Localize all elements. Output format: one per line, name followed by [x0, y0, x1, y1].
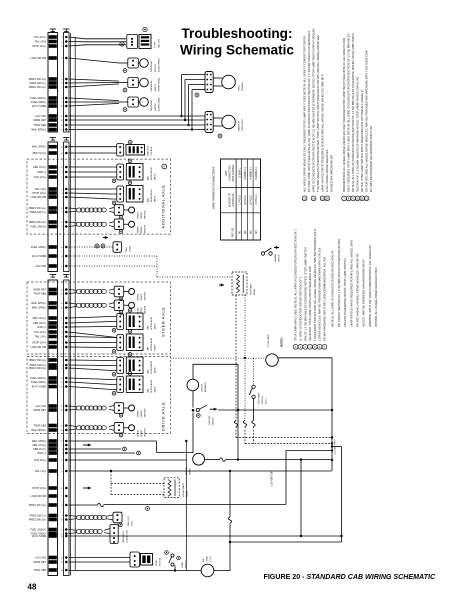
- wheel sensor drive R labels: [138, 428, 147, 437]
- svg-text:PRES SW 1(-): PRES SW 1(-): [29, 81, 46, 85]
- svg-text:VALVE: VALVE: [154, 367, 157, 374]
- svg-text:ALL WHEEL DRIVE VEHICLES ONLY.: ALL WHEEL DRIVE VEHICLES ONLY. REQUIRES …: [303, 35, 307, 192]
- svg-text:ABS VLV(-): ABS VLV(-): [33, 447, 46, 451]
- fuel sender wires to sensor: [213, 78, 222, 86]
- svg-text:17: 17: [60, 441, 62, 443]
- key switch screw: [196, 414, 200, 418]
- ignition frame top: [193, 363, 238, 365]
- stop lamp relay labels: [250, 283, 257, 295]
- wheel sensor steer R sensor: [129, 302, 135, 308]
- svg-text:TAIL LP(-): TAIL LP(-): [35, 469, 47, 473]
- pressure switch 3 link: [138, 101, 139, 103]
- wheel sensor add-axle R sensor: [129, 221, 135, 227]
- dashed feed to ether relay 2: [111, 494, 164, 496]
- svg-text:LOW AIR SW: LOW AIR SW: [30, 494, 46, 498]
- junction dot (245,358): [244, 357, 246, 359]
- ignition frame left lower: [192, 413, 194, 454]
- twisted pair wires wheel sensor drive L: [69, 405, 114, 410]
- svg-text:16: 16: [60, 430, 62, 432]
- svg-text:SNSR RET: SNSR RET: [33, 118, 47, 122]
- ABS valve add-axle 2 valve block: [126, 186, 143, 203]
- svg-text:ABS: ABS: [147, 388, 150, 393]
- svg-text:1: 1: [62, 445, 63, 447]
- svg-text:NOTES:: NOTES:: [280, 337, 284, 347]
- svg-text:STOP LP(+): STOP LP(+): [32, 341, 46, 345]
- svg-text:SECTION OF 1.5 SQ MM UNLESS OT: SECTION OF 1.5 SQ MM UNLESS OTHERWISE NO…: [356, 77, 360, 192]
- svg-text:ARDWIRE INPUT OR J1939 COMMUNI: ARDWIRE INPUT OR J1939 COMMUNICATION. AL…: [368, 245, 372, 327]
- riser x=245: [244, 295, 246, 358]
- wire row 505 left: [69, 504, 98, 506]
- air horn labels: [202, 556, 212, 562]
- svg-text:SENSOR: SENSOR: [145, 291, 147, 300]
- svg-text:+12V IGNITION: +12V IGNITION: [272, 470, 274, 487]
- svg-text:MODULATOR: MODULATOR: [150, 316, 153, 329]
- screw above fuse block: [128, 140, 132, 144]
- svg-text:FIGURE 20 - STANDARD CAB WIRIN: FIGURE 20 - STANDARD CAB WIRING SCHEMATI…: [264, 573, 436, 581]
- svg-text:FUEL SNSR: FUEL SNSR: [242, 119, 244, 131]
- svg-text:VALVE: VALVE: [154, 344, 157, 351]
- trunk corner to vertical B: [332, 447, 343, 543]
- svg-text:ED FOR ATC AND ALL-WHEEL DRIVE: ED FOR ATC AND ALL-WHEEL DRIVE VEHICLES.…: [365, 50, 369, 192]
- fuse in trunk x=232.8: [228, 517, 231, 523]
- svg-text:FUEL SND(+): FUEL SND(+): [30, 225, 46, 229]
- svg-text:9: 9: [62, 515, 63, 517]
- fuse in riser x=236: [234, 421, 237, 427]
- connector (stop/tail lamps) body: [127, 35, 138, 49]
- fuel sender connector pins: [206, 74, 211, 91]
- stop lamp switch labels: [258, 392, 268, 404]
- wire ignition to trunk: [218, 409, 332, 411]
- ignition frame left mid: [192, 391, 194, 408]
- svg-text:4-380813-1: 4-380813-1: [250, 166, 253, 179]
- ABS valve steer 2 screw bottom-left: [112, 350, 116, 354]
- twisted pair data link 1: [69, 515, 113, 520]
- dotted wire row 266: [69, 265, 157, 267]
- right trunk vertical x=332: [331, 358, 333, 471]
- svg-text:PRES SW 1(+): PRES SW 1(+): [29, 77, 47, 81]
- svg-text:ETHER START: ETHER START: [182, 483, 185, 497]
- wire fuse to trunk: [226, 459, 333, 461]
- water-in-fuel sensor labels: [238, 119, 245, 131]
- svg-text:CONNECTOR: CONNECTOR: [127, 530, 129, 543]
- wires to ABS valve drive 2: [69, 378, 117, 390]
- connector (stop/tail lamps) pins: [131, 38, 133, 46]
- terminal strip segment 2 (wide): [48, 142, 58, 272]
- ABS valve add-axle 1 screw top: [128, 159, 132, 163]
- svg-text:ABS VLV(-): ABS VLV(-): [33, 165, 46, 169]
- svg-text:HORN: HORN: [207, 556, 209, 562]
- wheel sensor steer R labels: [138, 305, 147, 314]
- svg-text:RELAY: RELAY: [253, 288, 256, 295]
- svg-text:HORN: HORN: [156, 560, 158, 566]
- svg-text:OR ATC AND ALL-WHEEL DRIVE VEH: OR ATC AND ALL-WHEEL DRIVE VEHICLES. MAY…: [356, 253, 360, 327]
- svg-text:8: 8: [62, 365, 63, 367]
- wire oil lamp to fuse: [205, 459, 220, 461]
- stop lamp relay coil: [237, 275, 240, 293]
- svg-text:Wiring Schematic: Wiring Schematic: [180, 43, 294, 58]
- wheel sensor steer L link: [124, 291, 129, 293]
- svg-text:VALVE: VALVE: [154, 323, 157, 330]
- ignition frame right vertical: [237, 364, 239, 460]
- pressure switch 3 labels: [151, 97, 161, 111]
- terminal strip wire bands: [49, 35, 57, 572]
- wheel sensor add-axle L connector: [114, 205, 124, 216]
- svg-text:REF. NO.: REF. NO.: [232, 227, 235, 237]
- wire row 460 left: [69, 459, 186, 461]
- svg-text:TAIL LP(-): TAIL LP(-): [35, 187, 47, 191]
- svg-text:PRES SW 2(+): PRES SW 2(+): [29, 518, 47, 522]
- dashed drop from row 471: [110, 471, 112, 495]
- low air pressure switch screw: [123, 69, 127, 73]
- svg-text:AIR: AIR: [202, 558, 205, 562]
- fuse below stop switch: [252, 421, 255, 427]
- svg-text:MODULATOR: MODULATOR: [150, 379, 153, 392]
- svg-text:CONN: CONN: [130, 246, 132, 252]
- twisted pair wires wheel sensor drive R: [69, 425, 114, 430]
- svg-text:SWITCH: SWITCH: [155, 83, 157, 91]
- svg-text:7: 7: [62, 496, 63, 498]
- wheel sensor drive L link: [124, 407, 129, 409]
- wheel sensor drive R sensor: [129, 425, 135, 431]
- svg-text:WHL SPD(-): WHL SPD(-): [32, 145, 46, 149]
- svg-text:J1939: J1939: [132, 520, 134, 526]
- svg-text:9: 9: [62, 102, 63, 104]
- ABS valve steer 1 connector pins: [119, 316, 121, 328]
- wire row 536: [69, 535, 342, 537]
- svg-text:SENSOR: SENSOR: [145, 408, 147, 417]
- wheel sensor add-axle L sensor: [129, 207, 135, 213]
- wire rows 37-46 to stop/tail connector: [69, 37, 126, 46]
- extra wire row 332: [69, 332, 117, 338]
- dotted wire from drive axle box: [171, 357, 266, 359]
- svg-text:VALVE: VALVE: [154, 195, 157, 202]
- svg-text:TAIL LP(+): TAIL LP(+): [34, 35, 46, 39]
- svg-text:10: 10: [60, 247, 62, 249]
- svg-text:WHL SPD(+): WHL SPD(+): [31, 128, 46, 132]
- wires rows 116-129.5 to sender connector: [69, 116, 205, 130]
- breaker labels: [202, 382, 208, 392]
- svg-text:HORN: HORN: [182, 562, 184, 568]
- svg-text:14: 14: [60, 410, 62, 412]
- dotted wire row 247: [69, 246, 113, 248]
- stop lamp labels: [267, 334, 270, 347]
- trunk wires up to fuel sender: [180, 75, 205, 131]
- note ref near wif sensor: [218, 134, 222, 138]
- svg-text:SENSOR: SENSOR: [145, 224, 147, 233]
- svg-text:ONLY. REQUIRES STOP LAMP INPUT: ONLY. REQUIRES STOP LAMP INPUT (SEE NOTE…: [347, 33, 351, 192]
- svg-text:17: 17: [60, 318, 62, 320]
- wire row 453: [69, 451, 140, 455]
- svg-text:+12V IGN: +12V IGN: [35, 404, 47, 408]
- svg-text:HICLES. MAY BE PROVIDED VIA HA: HICLES. MAY BE PROVIDED VIA HARDWIRE INP…: [362, 259, 366, 327]
- notes list (upper right): [302, 29, 373, 201]
- trunk x=232.8 lower: [229, 471, 231, 517]
- bottom toggle switch: [165, 551, 181, 566]
- data link 1 screw: [119, 523, 123, 527]
- low air pressure switch labels: [151, 58, 161, 72]
- ABS valve add-axle 1 connector pins: [119, 166, 121, 178]
- svg-text:SPEED: SPEED: [141, 410, 143, 417]
- svg-text:15: 15: [60, 147, 62, 149]
- ABS valve steer 2 labels: [147, 337, 157, 350]
- svg-text:ABS VLV(+): ABS VLV(+): [32, 316, 46, 320]
- water-in-fuel sensor connector: [205, 112, 213, 133]
- ABS valve steer 2 valve block: [126, 334, 143, 351]
- wheel sensor drive L labels: [138, 408, 147, 417]
- svg-text:HAZARD: HAZARD: [274, 253, 277, 262]
- svg-text:6: 6: [62, 347, 63, 349]
- svg-text:WHEEL: WHEEL: [138, 409, 140, 417]
- svg-text:PRESSURE: PRESSURE: [151, 60, 153, 72]
- svg-text:ES. MAY BE PROVIDED VIA HARDWI: ES. MAY BE PROVIDED VIA HARDWIRE INPUT O…: [369, 126, 373, 192]
- svg-text:SENDER: SENDER: [242, 82, 244, 91]
- svg-text:TRACTION: TRACTION: [147, 145, 150, 156]
- svg-text:SWITCH: SWITCH: [279, 254, 281, 262]
- junction dot (301,460): [300, 458, 302, 460]
- dotted wire row 256: [69, 255, 157, 257]
- svg-text:ED VIA HARDWIRE INPUT OR J1939: ED VIA HARDWIRE INPUT OR J1939 COMMUNICA…: [323, 257, 327, 341]
- wire row 562: [69, 561, 130, 563]
- stop/tail labels: [155, 38, 161, 48]
- svg-text:5 SQ MM UNLESS OTHERWISE NOTED: 5 SQ MM UNLESS OTHERWISE NOTED. STOP LAM…: [316, 35, 320, 192]
- svg-text:WHL SPD(+): WHL SPD(+): [31, 428, 46, 432]
- svg-text:TRLR ABS: TRLR ABS: [34, 424, 47, 428]
- wheel sensor steer R connector: [114, 300, 124, 311]
- svg-text:STOP LP(+): STOP LP(+): [32, 191, 46, 195]
- ABS valve add-axle 1 valve block: [126, 164, 143, 181]
- stop lamp switch: [249, 385, 255, 398]
- ABS valve drive 1 screw bottom-left: [112, 373, 116, 377]
- wire identification labels (left margin): [29, 35, 47, 572]
- wires to pressure switch 2: [69, 79, 128, 87]
- svg-text:48: 48: [28, 583, 37, 592]
- svg-text:TAIL LP(-): TAIL LP(-): [35, 40, 47, 44]
- screw on row 505: [146, 507, 150, 511]
- svg-text:TRLR ABS: TRLR ABS: [34, 568, 47, 572]
- svg-text:(NORM OPEN): (NORM OPEN): [159, 97, 161, 111]
- wires to ABS valve drive 1: [69, 360, 117, 371]
- svg-text:SPEED: SPEED: [141, 293, 143, 300]
- fuel sender labels: [239, 82, 245, 91]
- svg-text:ABS: ABS: [147, 325, 150, 330]
- svg-text:WHL SPD(-): WHL SPD(-): [32, 439, 46, 443]
- svg-text:WHEEL: WHEEL: [138, 306, 140, 314]
- wheel sensor add-axle R connector pins: [118, 221, 120, 228]
- connector strip pin dots: [65, 36, 68, 572]
- wires to low air pressure switch: [69, 58, 128, 63]
- hazard switch labels: [274, 253, 281, 262]
- terminal strip segment 1 (wide): [48, 33, 58, 133]
- svg-text:SWITCH: SWITCH: [262, 396, 264, 404]
- svg-text:11: 11: [61, 529, 63, 531]
- ABS valve steer 1 connector: [117, 314, 124, 330]
- svg-text:1: 1: [62, 323, 63, 325]
- svg-text:WHL SPD(+): WHL SPD(+): [31, 301, 46, 305]
- svg-text:2: 2: [62, 177, 63, 179]
- svg-text:(NORM OPEN): (NORM OPEN): [159, 58, 161, 72]
- wheel sensor drive R screw: [119, 433, 123, 437]
- svg-text:CONTROL: CONTROL: [151, 145, 153, 156]
- ABS valve steer 2 connector: [117, 335, 124, 351]
- svg-text:16 POLE: 16 POLE: [244, 195, 247, 205]
- wheel sensor steer L connector: [114, 286, 124, 297]
- svg-text:15: 15: [60, 303, 62, 305]
- dotted link switch to row 358: [253, 358, 255, 385]
- pressure switch 2 link: [138, 82, 139, 84]
- wires to ABS valve add-axle 2: [69, 189, 117, 199]
- wheel sensor add-axle R screw: [119, 230, 123, 234]
- svg-text:+12V IGN: +12V IGN: [35, 556, 47, 560]
- svg-text:PRES SW 1(+): PRES SW 1(+): [29, 503, 47, 507]
- svg-text:171809-1: 171809-1: [238, 167, 241, 178]
- svg-text:STOP: STOP: [155, 42, 157, 48]
- svg-text:MODULATOR: MODULATOR: [150, 167, 153, 180]
- dashed riser x=236: [235, 295, 237, 421]
- svg-text:OR CROSS-SECTION OF 1.5 SQ MM: OR CROSS-SECTION OF 1.5 SQ MM UNLESS OTH…: [337, 238, 341, 327]
- ABS valve add-axle 2 screw bottom-left: [112, 201, 116, 205]
- twisted pair wires wheel sensor steer L: [69, 289, 114, 294]
- note refs row 246: [95, 244, 105, 248]
- key switch: [192, 405, 217, 411]
- lamp terminal block: [139, 35, 151, 49]
- dotted riser x=157: [156, 256, 158, 277]
- svg-text:13: 13: [60, 289, 62, 291]
- connector (axle feed) pins: [119, 146, 121, 154]
- svg-text:LOW AIR SW: LOW AIR SW: [30, 195, 46, 199]
- svg-text:1: 1: [62, 172, 63, 174]
- dashed box STEER AXLE: [27, 282, 171, 354]
- ether relay coil: [168, 480, 171, 497]
- wheel sensor steer L labels: [138, 291, 147, 300]
- svg-text:WHEEL: WHEEL: [138, 225, 140, 233]
- svg-text:FUEL SND(-): FUEL SND(-): [31, 380, 46, 384]
- ether relay contact: [174, 480, 176, 497]
- wheel sensor steer R connector pins: [118, 302, 120, 309]
- svg-text:LOW AIR SW: LOW AIR SW: [30, 345, 46, 349]
- svg-text:FUEL SND(-): FUEL SND(-): [31, 245, 46, 249]
- fuse in riser x=245: [243, 421, 246, 427]
- harness clamp symbols (top): [50, 29, 70, 32]
- svg-text:ABS: ABS: [147, 346, 150, 351]
- fuel sender connector: [205, 72, 213, 93]
- pressure switch 2 connector pins: [132, 79, 134, 85]
- svg-text:SWITCH: SWITCH: [155, 103, 157, 111]
- svg-text:WIRE IS CONDUCTOR CROSS-SECTIO: WIRE IS CONDUCTOR CROSS-SECTION OF 1.5 S…: [312, 29, 316, 192]
- svg-text:TAIL LP(+): TAIL LP(+): [34, 330, 46, 334]
- ABS valve steer 2 connector pins: [119, 337, 121, 349]
- wire row 449: [69, 447, 126, 451]
- svg-text:TAIL LPS: TAIL LPS: [158, 38, 161, 48]
- junction dot (186,441): [185, 440, 187, 442]
- svg-text:+12V IGN: +12V IGN: [35, 264, 47, 268]
- dashed corner x=245 to trunk: [245, 427, 332, 444]
- notes list (mid right) numbered: [293, 229, 327, 349]
- svg-text:L DRIVE VEHICLES. MAY BE PROVI: L DRIVE VEHICLES. MAY BE PROVIDED VIA HA…: [318, 247, 322, 341]
- ABS valve add-axle 2 labels: [147, 189, 157, 202]
- svg-text:9: 9: [62, 368, 63, 370]
- ABS valve drive 1 connector pins: [119, 360, 121, 372]
- wire row 441 to ignition: [69, 441, 193, 453]
- bottom connector A: [130, 552, 140, 567]
- svg-text:ABS VLV(+): ABS VLV(+): [32, 151, 46, 155]
- wheel sensor steer R screw: [119, 311, 123, 315]
- junction dot (238,410): [237, 409, 239, 411]
- water-in-fuel sensor wires to sensor: [213, 118, 222, 126]
- wheel sensor steer R link: [124, 304, 129, 306]
- screw terminal above block: [143, 27, 147, 31]
- svg-text:15: 15: [60, 425, 62, 427]
- svg-text:MODULATOR: MODULATOR: [150, 360, 153, 373]
- svg-text:STEER AXLE: STEER AXLE: [161, 307, 166, 337]
- svg-text:TAIL LP(-): TAIL LP(-): [35, 335, 47, 339]
- svg-text:SWITCH: SWITCH: [213, 417, 215, 425]
- svg-text:6: 6: [62, 488, 63, 490]
- svg-text:W-I-F SNSR: W-I-F SNSR: [32, 534, 46, 538]
- bus x=186 lower: [185, 441, 187, 570]
- wire row 471: [69, 470, 332, 472]
- wire harness connectors table: [221, 159, 261, 240]
- wheel sensor steer L sensor: [129, 289, 135, 295]
- key switch labels: [209, 416, 215, 425]
- svg-text:13: 13: [60, 125, 62, 127]
- svg-text:STOP LAMP: STOP LAMP: [250, 283, 253, 295]
- svg-text:13: 13: [60, 406, 62, 408]
- svg-text:4: 4: [62, 336, 63, 338]
- svg-text:ES STOP LAMP INPUT (SEE NOTE 9: ES STOP LAMP INPUT (SEE NOTE 9). ALL WIR…: [307, 31, 311, 192]
- screw terminal left of block: [120, 42, 124, 46]
- svg-text:LAMP SWITCH INPUT REQUIRED FOR: LAMP SWITCH INPUT REQUIRED FOR ATC AND A…: [321, 74, 325, 192]
- arrow wire row 445: [83, 443, 91, 446]
- pressure switch 2 connector: [128, 78, 139, 88]
- junction dot (301,536): [300, 535, 302, 537]
- svg-text:8: 8: [62, 98, 63, 100]
- dashed feed to ether relay 1: [111, 483, 164, 485]
- svg-text:7: 7: [62, 212, 63, 214]
- svg-text:STOP LAMP: STOP LAMP: [258, 392, 261, 404]
- fuel sender sensor body: [222, 75, 236, 89]
- connector (axle feed): [117, 144, 124, 157]
- svg-text:STOP LAMP: STOP LAMP: [267, 334, 270, 347]
- wheel sensor add-axle R labels: [138, 224, 147, 233]
- svg-text:(N.O.): (N.O.): [266, 398, 268, 404]
- svg-text:ABS VLV(-): ABS VLV(-): [33, 321, 46, 325]
- svg-text:W-I-F SNSR: W-I-F SNSR: [32, 254, 46, 258]
- ABS valve steer 2 screw top: [128, 330, 132, 334]
- pin numbers: [60, 37, 62, 572]
- junction dot (111,471): [110, 470, 112, 472]
- svg-text:W-I-F SNSR: W-I-F SNSR: [32, 104, 46, 108]
- svg-text:5: 5: [62, 471, 63, 473]
- label ADDITIONAL AXLE: [161, 164, 167, 228]
- pressure switch 3 connector: [128, 97, 139, 107]
- svg-text:SPEED: SPEED: [141, 429, 143, 436]
- wheel sensor steer L screw: [119, 297, 123, 301]
- svg-text:6-380814-1: 6-380814-1: [244, 166, 247, 179]
- svg-text:FUEL SND(+): FUEL SND(+): [30, 528, 46, 532]
- svg-text:LL WIRE IS CONDUCTOR CROSS-SEC: LL WIRE IS CONDUCTOR CROSS-SECTION OF 1.: [299, 276, 303, 341]
- ABS valve add-axle 1 labels: [147, 167, 157, 180]
- svg-text:2: 2: [62, 41, 63, 43]
- svg-text:PRES SW 1(-): PRES SW 1(-): [29, 514, 46, 518]
- svg-text:17: 17: [60, 167, 62, 169]
- svg-text:VALVE: VALVE: [154, 173, 157, 180]
- ABS valve add-axle 1 screw bottom-left: [112, 179, 116, 183]
- wires rows 146.7-153: [69, 147, 117, 153]
- svg-text:FUEL: FUEL: [239, 85, 241, 91]
- riser x=245 lower: [244, 358, 246, 421]
- water-in-fuel sensor connector pins: [206, 114, 211, 131]
- svg-text:3: 3: [62, 332, 63, 334]
